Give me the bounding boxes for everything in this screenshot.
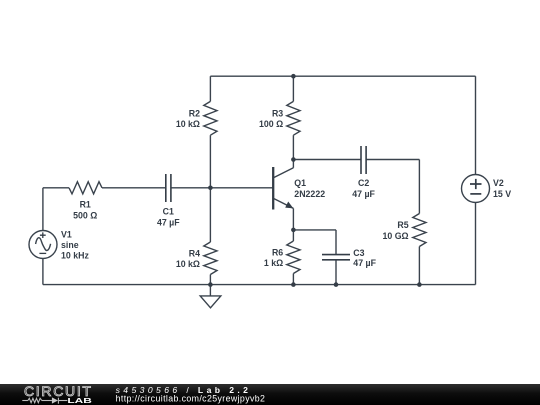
svg-text:C2: C2: [358, 178, 369, 188]
svg-text:C3: C3: [353, 248, 364, 258]
svg-text:V2: V2: [493, 178, 504, 188]
svg-text:47 µF: 47 µF: [353, 258, 376, 268]
svg-text:10 kHz: 10 kHz: [61, 251, 89, 261]
svg-text:R5: R5: [397, 220, 408, 230]
svg-text:1 kΩ: 1 kΩ: [264, 258, 283, 268]
svg-text:10 kΩ: 10 kΩ: [176, 119, 200, 129]
svg-text:LAB: LAB: [67, 396, 92, 405]
svg-text:R4: R4: [189, 248, 200, 258]
svg-text:10 GΩ: 10 GΩ: [382, 231, 408, 241]
svg-text:R6: R6: [272, 247, 283, 257]
svg-text:47 µF: 47 µF: [352, 189, 375, 199]
svg-text:15 V: 15 V: [493, 189, 511, 199]
svg-text:47 µF: 47 µF: [157, 217, 180, 227]
svg-text:2N2222: 2N2222: [294, 189, 325, 199]
svg-text:sine: sine: [61, 240, 79, 250]
svg-text:V1: V1: [61, 229, 72, 239]
svg-text:R3: R3: [272, 108, 283, 118]
svg-text:100 Ω: 100 Ω: [259, 119, 283, 129]
svg-text:10 kΩ: 10 kΩ: [176, 259, 200, 269]
svg-text:Q1: Q1: [294, 178, 306, 188]
svg-text:C1: C1: [163, 207, 174, 217]
svg-text:500 Ω: 500 Ω: [73, 210, 97, 220]
svg-text:R2: R2: [189, 108, 200, 118]
svg-text:http://circuitlab.com/c25yrewj: http://circuitlab.com/c25yrewjpyvb2: [116, 394, 266, 404]
svg-text:R1: R1: [80, 200, 91, 210]
